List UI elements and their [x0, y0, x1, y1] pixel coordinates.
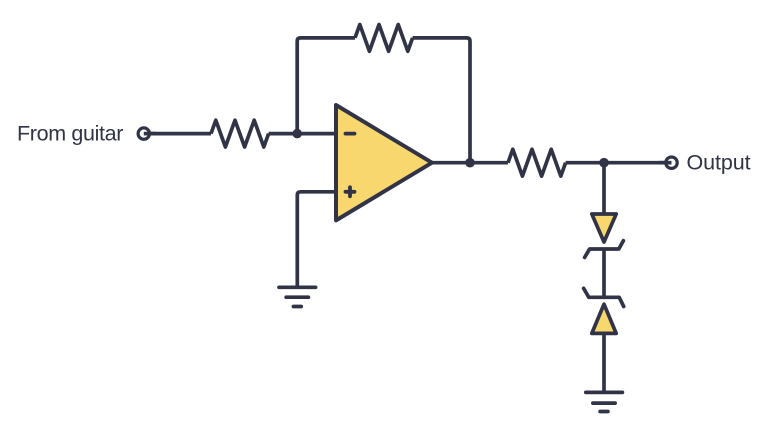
feedback loop wire (left riser, top run, right drop) — [297, 38, 470, 163]
node C junction dot (clipper tap) — [599, 158, 609, 168]
ground (op-amp reference) — [279, 287, 316, 306]
wire R1 to op-amp inverting input — [269, 132, 337, 136]
wire stub through terminal — [659, 161, 672, 165]
zener cathode bar D1 — [585, 241, 624, 258]
ground (clipper return) — [586, 392, 623, 411]
svg-text:From guitar: From guitar — [17, 122, 123, 146]
wire D1 to D2 — [602, 249, 606, 297]
op-amp minus (inverting) marker — [346, 132, 355, 136]
node A junction dot (inverting input node) — [292, 129, 302, 139]
wire op-amp output to R3 — [430, 161, 508, 165]
resistor R1 (input series resistor) — [211, 120, 269, 147]
wire R3 to output terminal — [566, 161, 672, 165]
node B junction dot (output of op-amp / feedback tap) — [465, 158, 475, 168]
op-amp plus (non-inverting) marker — [346, 187, 355, 196]
wire input terminal to R1 — [144, 132, 211, 136]
wire D2 to ground — [602, 333, 606, 390]
zener diode D1 (pointing down) — [592, 214, 616, 242]
wire non-inverting input to ground — [297, 192, 337, 286]
zener diode D2 (pointing up) — [592, 304, 616, 333]
output terminal (open circle) — [666, 157, 677, 168]
op-amp U1 body — [336, 105, 432, 220]
wire stub through terminal — [144, 132, 156, 136]
svg-text:Output: Output — [687, 151, 751, 175]
wire node C to diode D1 — [602, 163, 606, 213]
resistor R2 (feedback resistor) — [355, 25, 413, 52]
resistor R3 (output series resistor) — [508, 149, 566, 176]
input terminal (open circle) — [138, 128, 149, 139]
zener cathode bar D2 — [584, 288, 624, 306]
